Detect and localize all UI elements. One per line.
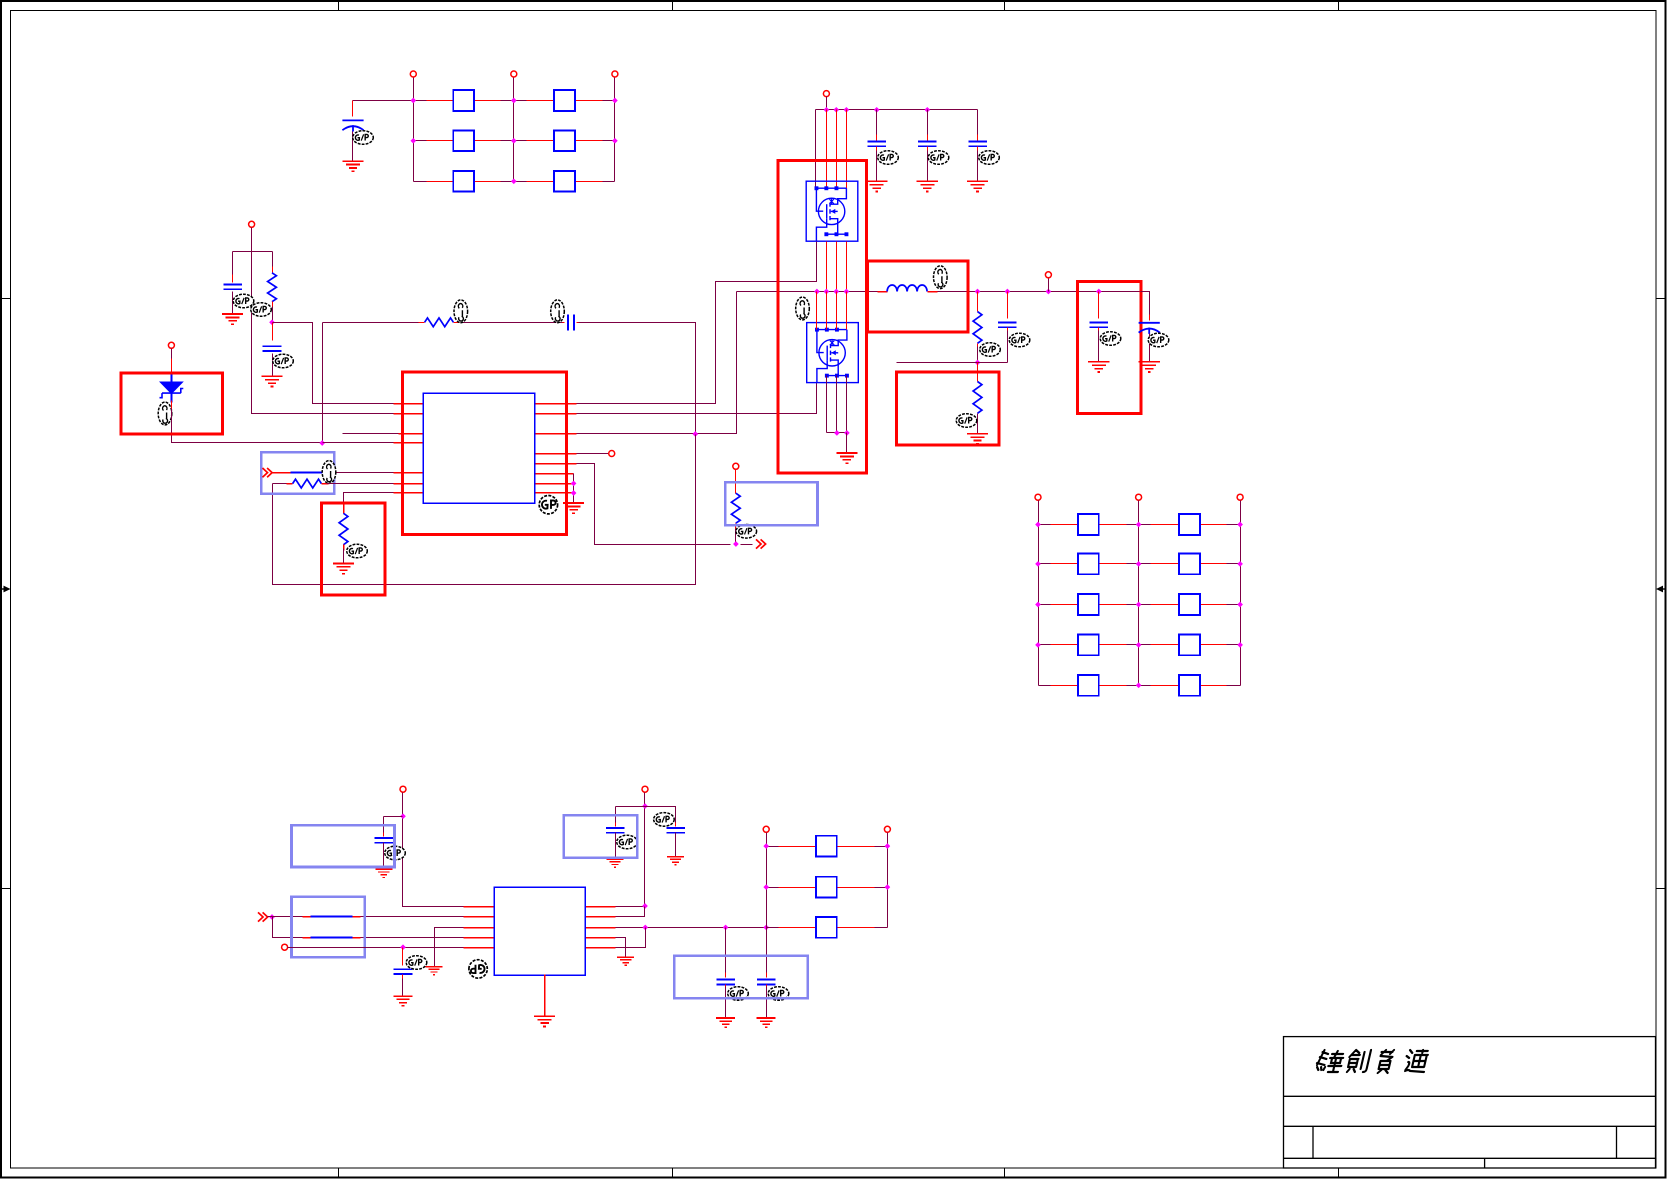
capacitor C2 xyxy=(232,252,234,282)
junction phase/P8 xyxy=(1046,289,1052,295)
connector pin P10 xyxy=(1136,494,1142,500)
ground for C5 xyxy=(866,181,887,191)
array resistor R15 xyxy=(1179,594,1200,615)
input bus rail down xyxy=(815,110,817,189)
center arrow right xyxy=(1656,586,1666,593)
capacitor C16 stamp xyxy=(768,987,789,1001)
wire net B drop to diode line xyxy=(322,323,324,443)
capacitor C14 xyxy=(675,823,677,827)
ground for C15 xyxy=(716,1018,735,1027)
capacitor C1 stamp xyxy=(353,131,374,145)
capacitor C8 xyxy=(1007,292,1009,319)
capacitor C10 (polarized) xyxy=(1149,315,1151,321)
array row 5 wire xyxy=(1039,685,1241,687)
ground for U2 xyxy=(534,1016,555,1026)
ground for C14 xyxy=(667,857,684,865)
array rail right xyxy=(1240,501,1242,686)
capacitor C13 xyxy=(615,807,617,825)
IC U1 left pin 1 xyxy=(394,403,424,405)
wire from P4 down xyxy=(251,228,253,252)
connector pin P14 xyxy=(642,786,648,792)
connector pin P8 xyxy=(1048,279,1050,292)
wire diode to net junction xyxy=(171,394,173,403)
bottom array rail left xyxy=(766,833,768,928)
connector pin P13 xyxy=(282,944,288,950)
junction netB/pin3 xyxy=(692,431,698,437)
capacitor C1 (polarized) xyxy=(352,101,354,117)
IC U2 right pin 5 xyxy=(586,947,616,949)
wire top-left array row 2 xyxy=(414,140,615,142)
diode D1 stamp xyxy=(158,402,172,425)
IC U2 left pin 2 xyxy=(464,916,495,918)
resistor R5 stamp xyxy=(347,544,368,558)
bottom array row 1 wire xyxy=(767,846,888,848)
title block frame xyxy=(1284,1037,1656,1168)
junction C15 xyxy=(723,925,729,931)
array row 1 wire xyxy=(1039,524,1241,526)
MOSFET Q2 package xyxy=(807,323,859,383)
array capacitor C12 xyxy=(453,130,474,151)
wire U2 pin2 right up xyxy=(616,907,645,917)
connector pin P3 xyxy=(612,71,618,77)
resistor R2 (series) xyxy=(425,318,454,327)
input row stamp xyxy=(322,461,336,484)
resistor R2 stamp xyxy=(454,300,468,323)
capacitor C5 stamp xyxy=(878,151,899,165)
highlight box around U1 xyxy=(402,372,566,535)
IC U1 ground pins to ground xyxy=(573,474,575,503)
company name logotype xyxy=(1315,1050,1429,1073)
IC U2 body xyxy=(494,887,585,975)
wire branch to R1 xyxy=(252,251,273,253)
zone tick right lower xyxy=(1657,888,1666,890)
input chevron xyxy=(263,468,273,477)
array resistor R11 xyxy=(1179,514,1200,535)
IC U1 right pin 6 xyxy=(535,473,574,475)
highlight box around R5 xyxy=(321,503,385,595)
IC U1 left pin 3 xyxy=(343,433,424,435)
array resistor R13 xyxy=(1179,554,1200,575)
wire branch to C11 xyxy=(384,816,403,818)
wire P5 to diode xyxy=(171,349,173,361)
ground for C6 xyxy=(917,181,938,191)
IC U1 stamp xyxy=(539,496,557,514)
array resistor R14 xyxy=(1078,594,1099,615)
array row 2 wire xyxy=(1039,563,1241,565)
array row 4 wire xyxy=(1039,644,1241,646)
wire U2 pin3 to ground xyxy=(435,928,464,967)
zone tick bottom 1 xyxy=(338,1169,340,1178)
capacitor C12 xyxy=(402,948,404,966)
IC U1 body xyxy=(423,393,535,503)
connector pin P16 xyxy=(884,826,890,832)
wire branch to C2 xyxy=(233,251,252,253)
capacitor C15 stamp xyxy=(728,987,749,1001)
array resistor R18 xyxy=(1078,675,1099,696)
inductor L1 xyxy=(878,291,888,293)
connector pin P7 xyxy=(823,91,829,97)
capacitor C12 stamp xyxy=(406,956,427,970)
highlight box around R3 xyxy=(725,482,817,525)
resistor R1 stamp xyxy=(251,303,272,317)
IC U2 left pin 3 xyxy=(464,927,495,929)
maroon wire stubs at rails (top-left array) xyxy=(414,100,427,102)
resistor R6 stamp xyxy=(980,343,1001,357)
IC U2 left pin 4 xyxy=(464,937,495,939)
highlight box around C13 xyxy=(564,815,638,858)
resistor R7 stamp xyxy=(956,414,977,428)
ground for R7 xyxy=(967,434,988,444)
capacitor C10 stamp xyxy=(1148,333,1169,347)
ground for C9 xyxy=(1088,362,1109,372)
highlight box around C9 xyxy=(1077,282,1140,414)
wire net A to IC pin 1 xyxy=(273,323,394,404)
IC U1 left pin 6 xyxy=(394,483,424,485)
wire top-left array row 1 xyxy=(353,100,414,102)
wire P4 junction to IC pin 2 xyxy=(252,252,394,414)
wire U2 pin3 long net xyxy=(616,927,888,929)
resistor R5 xyxy=(343,505,345,514)
drain wires into Q1 xyxy=(826,110,828,189)
wire P13 to U2 pin5 xyxy=(288,947,464,949)
array capacitor C10 xyxy=(453,90,474,111)
wire phase to C10 xyxy=(1141,292,1150,319)
resistor R6 xyxy=(977,292,979,312)
connector pin P17 xyxy=(733,463,739,469)
decoupling capacitor C5 xyxy=(876,110,878,137)
highlight box input network bottom xyxy=(292,897,365,958)
capacitor C15 xyxy=(725,928,727,975)
IC U1 right pin 1 xyxy=(535,403,577,405)
connector pin P1 xyxy=(410,71,416,77)
wire top-left array rail 1 xyxy=(413,77,415,182)
highlight box around L1 xyxy=(868,261,969,332)
connector pin P2 xyxy=(511,71,517,77)
junction P12/C11 xyxy=(400,813,406,819)
array capacitor C11 xyxy=(554,90,575,111)
wire P14 rail xyxy=(644,793,646,907)
array resistor R17 xyxy=(1179,635,1200,656)
junction pin3/pin5 tie xyxy=(642,925,648,931)
wire U1 pin1 to high-side gate xyxy=(577,242,817,404)
ground for C12 xyxy=(393,996,412,1005)
wire branch to C13 xyxy=(616,806,645,808)
wire chevron branch down xyxy=(273,917,303,938)
resistor R4 xyxy=(273,483,287,485)
IC U1 left pin 5 xyxy=(394,472,424,474)
wire netB feedback down xyxy=(273,435,696,585)
highlight box around C11 xyxy=(292,825,395,867)
bottom array rail right xyxy=(887,833,889,928)
bottom array row 3 wire xyxy=(767,927,888,929)
array row 3 wire xyxy=(1039,604,1241,606)
phase rail segments above Q2 xyxy=(826,242,828,292)
capacitor C13 stamp xyxy=(617,835,638,849)
zone tick bottom 3 xyxy=(1004,1169,1006,1178)
IC U2 left pin 1 xyxy=(464,906,495,908)
resistor R3 xyxy=(735,470,737,494)
bottom array resistor R20 xyxy=(816,836,837,857)
IC U2 ground pin xyxy=(544,975,546,1017)
resistor R7 xyxy=(977,363,979,382)
bottom array junction dots xyxy=(763,843,769,849)
capacitor C4 (series) xyxy=(568,314,574,330)
ground for C13 xyxy=(607,859,624,867)
highlight box around D1 xyxy=(121,373,223,434)
capacitor C14 stamp xyxy=(654,813,675,827)
wire top-left array row 3 xyxy=(414,181,615,183)
array capacitor C14 xyxy=(453,171,474,192)
capacitor C16 xyxy=(766,928,768,975)
IC U1 left pin 7 xyxy=(394,492,424,494)
MOSFET Q1 package xyxy=(806,181,858,241)
IC U1 right pin 3 xyxy=(535,433,577,435)
junction node R1/C3 xyxy=(269,319,275,325)
zener diode D1 xyxy=(160,382,184,397)
highlight box input network xyxy=(261,452,334,494)
IC U1 left pin 2 xyxy=(394,413,424,415)
maroon wire stubs at rails (right array) xyxy=(1039,524,1051,526)
source wires below Q2 xyxy=(826,376,828,433)
wire top-left array rail 2 xyxy=(513,77,515,182)
capacitor C11 stamp xyxy=(385,846,406,860)
IC U1 right pin 8 xyxy=(535,492,574,494)
IC U2 right pin 3 xyxy=(586,927,616,929)
array rail middle xyxy=(1138,501,1140,686)
wire top-left array rail 3 xyxy=(614,77,616,182)
maroon wire stubs at rails (bottom array) xyxy=(767,846,779,848)
zone tick bottom 2 xyxy=(672,1169,674,1178)
ground for C1 xyxy=(342,161,363,171)
capacitor C9 stamp xyxy=(1100,332,1121,346)
inductor L1 stamp xyxy=(934,266,948,289)
ground for U2 pin4 xyxy=(617,957,634,965)
array junction dots xyxy=(1035,522,1041,528)
wire source bus to ground xyxy=(846,433,848,453)
ground for C7 xyxy=(967,181,988,191)
phase bus xyxy=(737,291,878,293)
highlight box around C15 C16 xyxy=(674,956,808,998)
wire U1 pin3 to phase sense xyxy=(577,292,737,434)
wire R6 bottom tie xyxy=(897,362,1008,364)
highlight box around power stage xyxy=(778,161,867,473)
connector pin P11 xyxy=(1237,494,1243,500)
ground for power stage xyxy=(836,453,857,463)
wire P7 to input bus xyxy=(826,97,828,110)
zone tick bottom 4 xyxy=(1338,1169,1340,1178)
ground for U2 pin3 xyxy=(426,967,443,975)
capacitor C6 stamp xyxy=(928,151,949,165)
array resistor R19 xyxy=(1179,675,1200,696)
wire U1 pin7 to R5 xyxy=(344,493,394,509)
wire pin5 tie xyxy=(616,928,646,948)
capacitor C11 xyxy=(383,817,385,835)
output chevron xyxy=(756,539,766,548)
connector pin P12 xyxy=(400,786,406,792)
capacitor C3 stamp xyxy=(273,354,294,368)
zone tick top 1 xyxy=(338,1,340,11)
IC U2 stamp xyxy=(469,960,487,978)
connector pin P9 xyxy=(1035,494,1041,500)
decoupling capacitor C7 xyxy=(977,110,979,137)
junction U2 pin1 right xyxy=(642,903,648,909)
wire net B horizontal xyxy=(323,322,419,324)
zone tick top 4 xyxy=(1338,1,1340,11)
junction chevron node xyxy=(269,914,275,920)
zone tick top 3 xyxy=(1004,1,1006,11)
highlight box around R7 xyxy=(896,372,999,445)
zone tick left upper xyxy=(1,298,11,300)
array resistor R12 xyxy=(1078,554,1099,575)
wire U2 pin4 to ground xyxy=(616,938,626,958)
ground for C16 xyxy=(757,1018,776,1027)
ground for C2 xyxy=(222,314,243,324)
array rail left xyxy=(1038,501,1040,686)
junction P14 branch xyxy=(642,803,648,809)
IC U2 left pin 5 xyxy=(464,947,495,949)
capacitor C4 stamp xyxy=(551,300,565,323)
capacitor C8 stamp xyxy=(1009,333,1030,347)
ground for C11 xyxy=(375,869,392,877)
IC U1 right pin 5 xyxy=(535,463,577,465)
bottom array row 2 wire xyxy=(767,887,888,889)
junction R6/C8 xyxy=(975,360,981,366)
capacitor C3 xyxy=(272,323,274,341)
junction dots top-left array xyxy=(410,98,416,104)
IC U2 right pin 2 xyxy=(586,916,616,918)
ground for R5 xyxy=(333,563,354,573)
gate wire Q1 segment xyxy=(816,242,818,282)
IC U2 right pin 4 xyxy=(586,937,616,939)
array capacitor C15 xyxy=(554,171,575,192)
resistor R3 stamp xyxy=(736,525,757,539)
junction C12 xyxy=(400,944,406,950)
capacitor C9 xyxy=(1098,292,1100,319)
Q2 stamp xyxy=(796,297,810,320)
connector pin P6 xyxy=(577,453,609,455)
input bus xyxy=(816,109,978,111)
junction phase/C9 xyxy=(1096,289,1102,295)
wire U1 pin5 to output chevron xyxy=(577,464,731,545)
array resistor R10 xyxy=(1078,514,1099,535)
capacitor C7 stamp xyxy=(979,151,1000,165)
wire row2 to U2 pin4 xyxy=(303,937,311,939)
bottom array resistor R21 xyxy=(816,877,837,898)
ground for U1 xyxy=(563,503,584,513)
drain wires into Q2 xyxy=(816,292,818,330)
source bus xyxy=(827,432,847,434)
IC U1 right pin 2 xyxy=(535,413,577,415)
wire U2 pin1 right to rail xyxy=(616,906,645,908)
array resistor R16 xyxy=(1078,635,1099,656)
zone tick top 2 xyxy=(672,1,674,11)
ground for C3 xyxy=(261,376,282,386)
IC U2 right pin 1 xyxy=(586,906,616,908)
IC U1 right pin 7 xyxy=(535,483,574,485)
wire chevron to U2 pin2 xyxy=(268,916,303,918)
wire input row xyxy=(273,472,291,474)
resistor R1 xyxy=(272,252,274,269)
junction bus dots xyxy=(824,107,830,113)
connector pin P4 xyxy=(249,221,255,227)
bottom array resistor R22 xyxy=(816,917,837,938)
phase bus junctions xyxy=(814,289,820,295)
zone tick right upper xyxy=(1657,298,1666,300)
decoupling capacitor C6 xyxy=(927,110,929,137)
connector pin P5 xyxy=(168,342,174,348)
junction output/R3 xyxy=(733,541,739,547)
IC U1 right pin 4 xyxy=(535,453,577,455)
junction phase/C8 xyxy=(1005,289,1011,295)
wire U1 pin2 to low-side gate xyxy=(577,383,817,414)
array capacitor C13 xyxy=(554,130,575,151)
input chevron bottom xyxy=(258,912,268,921)
junction diode/netB xyxy=(319,440,325,446)
IC U1 left pin 4 xyxy=(394,442,424,444)
wire branch to C14 xyxy=(645,807,676,825)
center arrow left xyxy=(1,586,11,593)
wire to IC pin 4 xyxy=(323,442,394,444)
ground for C10 xyxy=(1139,362,1160,372)
zone tick left lower xyxy=(1,888,11,890)
junction phase/R6 xyxy=(975,289,981,295)
junction C16 xyxy=(763,925,769,931)
wire P12 down to U2 pin1 xyxy=(403,793,464,907)
capacitor C2 stamp xyxy=(233,294,254,308)
connector pin P15 xyxy=(763,826,769,832)
